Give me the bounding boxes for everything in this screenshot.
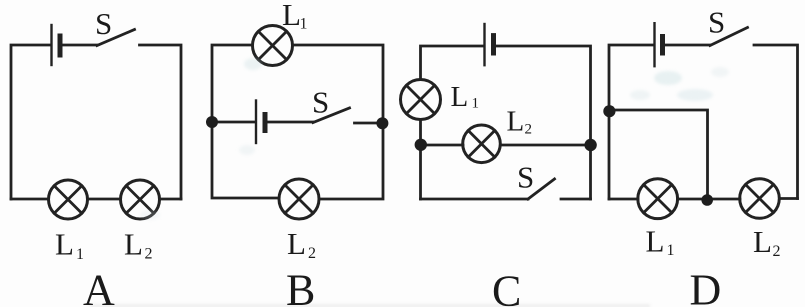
svg-text:1: 1 <box>667 242 675 259</box>
svg-text:A: A <box>83 266 115 307</box>
svg-text:L: L <box>287 226 306 261</box>
svg-text:D: D <box>690 266 722 307</box>
svg-text:1: 1 <box>472 96 480 112</box>
svg-text:C: C <box>492 267 521 307</box>
svg-text:2: 2 <box>525 122 533 138</box>
svg-text:S: S <box>312 85 329 120</box>
svg-text:L: L <box>282 0 301 32</box>
svg-text:1: 1 <box>300 16 308 33</box>
svg-text:L: L <box>124 227 143 262</box>
svg-text:L: L <box>55 227 74 262</box>
svg-text:1: 1 <box>76 246 84 263</box>
svg-text:S: S <box>95 6 112 41</box>
svg-text:L: L <box>753 224 772 259</box>
svg-text:2: 2 <box>773 243 781 260</box>
svg-text:2: 2 <box>145 246 153 263</box>
svg-text:L: L <box>646 224 665 259</box>
svg-text:2: 2 <box>308 245 316 262</box>
svg-text:B: B <box>286 266 315 307</box>
svg-text:L: L <box>451 81 469 113</box>
svg-text:L: L <box>507 106 525 138</box>
svg-text:S: S <box>708 5 725 40</box>
svg-text:S: S <box>517 160 534 195</box>
